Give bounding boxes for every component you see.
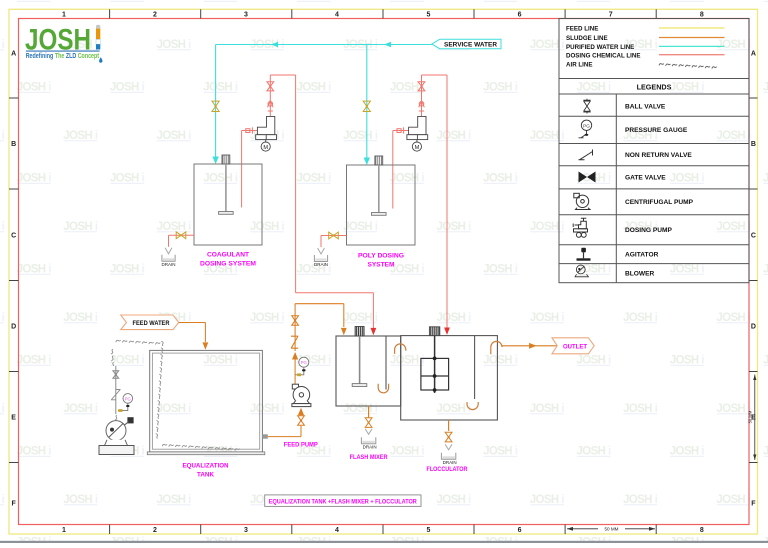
svg-text:M: M [415, 145, 420, 151]
svg-text:M: M [263, 145, 268, 151]
svg-text:AIR LINE: AIR LINE [566, 62, 592, 69]
svg-text:5: 5 [427, 11, 431, 18]
svg-text:50 MM: 50 MM [604, 527, 618, 532]
svg-text:SERVICE WATER: SERVICE WATER [444, 42, 498, 49]
svg-text:A: A [11, 51, 16, 58]
svg-text:B: B [751, 141, 756, 148]
svg-text:SYSTEM: SYSTEM [368, 262, 395, 269]
svg-text:5: 5 [427, 527, 431, 534]
svg-text:EQUALIZATION TANK +FLASH MIXER: EQUALIZATION TANK +FLASH MIXER + FLOCCUL… [269, 498, 417, 505]
svg-text:DOSING CHEMICAL LINE: DOSING CHEMICAL LINE [566, 53, 640, 60]
svg-text:BALL VALVE: BALL VALVE [625, 104, 666, 111]
svg-text:COAGULANT: COAGULANT [207, 252, 249, 259]
svg-text:C: C [751, 233, 756, 240]
svg-text:8: 8 [700, 527, 704, 534]
svg-text:EQUALIZATION: EQUALIZATION [183, 463, 229, 470]
svg-text:6: 6 [518, 527, 522, 534]
svg-text:FEED WATER: FEED WATER [133, 320, 170, 327]
svg-text:D: D [11, 324, 16, 331]
svg-text:DRAIN: DRAIN [363, 444, 377, 449]
svg-text:DRAIN: DRAIN [161, 262, 175, 267]
svg-text:8: 8 [700, 11, 704, 18]
svg-text:OUTLET: OUTLET [563, 343, 587, 350]
svg-text:GATE VALVE: GATE VALVE [625, 175, 666, 182]
svg-text:CENTRIFUGAL PUMP: CENTRIFUGAL PUMP [625, 199, 694, 206]
svg-text:FEED PUMP: FEED PUMP [284, 441, 319, 448]
svg-text:FLOCCULATOR: FLOCCULATOR [427, 466, 468, 473]
svg-text:D: D [751, 324, 756, 331]
svg-text:DRAIN: DRAIN [314, 262, 328, 267]
svg-text:DRAIN: DRAIN [443, 460, 457, 465]
svg-text:6: 6 [518, 11, 522, 18]
svg-text:F: F [11, 501, 16, 508]
svg-text:4: 4 [335, 527, 339, 534]
svg-text:7: 7 [609, 11, 613, 18]
svg-text:PRESSURE GAUGE: PRESSURE GAUGE [625, 127, 688, 134]
svg-text:PG: PG [301, 360, 308, 365]
svg-text:2: 2 [153, 527, 157, 534]
svg-text:3: 3 [244, 11, 248, 18]
svg-text:AGITATOR: AGITATOR [625, 252, 659, 259]
svg-text:LEGENDS: LEGENDS [637, 82, 672, 91]
svg-text:DOSING PUMP: DOSING PUMP [625, 227, 672, 234]
svg-text:FEED LINE: FEED LINE [566, 26, 598, 33]
svg-text:F: F [751, 501, 756, 508]
svg-text:NON RETURN VALVE: NON RETURN VALVE [625, 152, 692, 159]
svg-text:POLY DOSING: POLY DOSING [358, 253, 404, 260]
svg-text:TANK: TANK [197, 472, 214, 479]
svg-text:FLASH MIXER: FLASH MIXER [350, 454, 388, 461]
svg-text:PG: PG [125, 396, 131, 401]
svg-text:50 MM: 50 MM [747, 410, 752, 423]
svg-text:Redefining The ZLD Concept: Redefining The ZLD Concept [26, 53, 100, 60]
svg-text:B: B [11, 141, 16, 148]
svg-text:PG: PG [583, 123, 590, 128]
svg-text:4: 4 [335, 11, 339, 18]
svg-text:C: C [11, 233, 16, 240]
svg-text:1: 1 [62, 11, 66, 18]
svg-text:A: A [751, 51, 756, 58]
svg-text:E: E [11, 415, 16, 422]
svg-text:1: 1 [62, 527, 66, 534]
svg-text:PURIFIED WATER LINE: PURIFIED WATER LINE [566, 44, 634, 51]
svg-text:BLOWER: BLOWER [625, 270, 655, 277]
svg-text:DOSING SYSTEM: DOSING SYSTEM [200, 261, 256, 268]
svg-text:2: 2 [153, 11, 157, 18]
svg-text:3: 3 [244, 527, 248, 534]
svg-text:SLUDGE LINE: SLUDGE LINE [566, 35, 608, 42]
